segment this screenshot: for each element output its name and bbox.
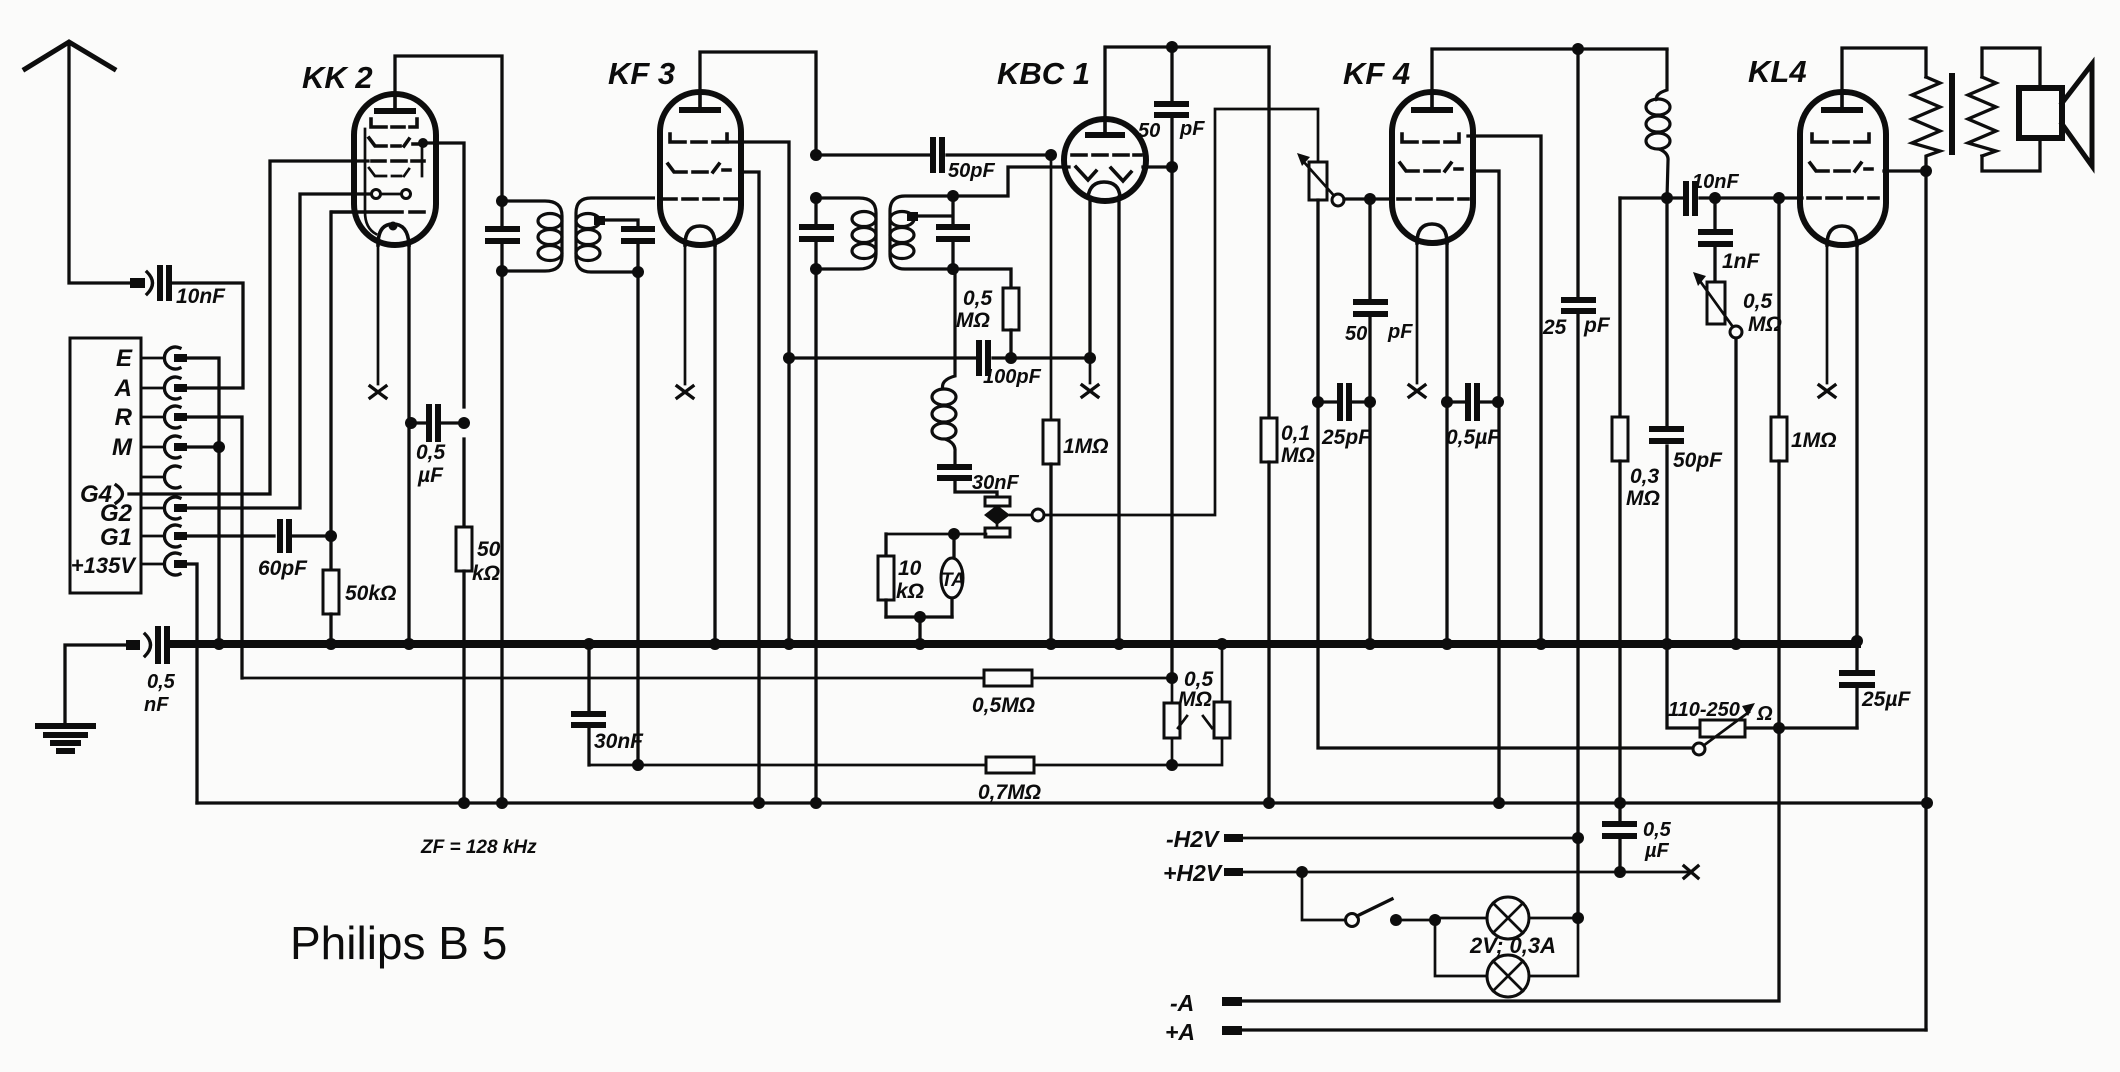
KF3 cathode (685, 226, 715, 245)
resistor 0,7MOhm (978, 757, 1041, 804)
svg-text:0,7MΩ: 0,7MΩ (978, 781, 1041, 804)
capacitor 50pF (KBC1) (1138, 47, 1205, 167)
svg-text:10nF: 10nF (1692, 171, 1739, 193)
svg-text:KBC 1: KBC 1 (997, 56, 1090, 91)
capacitor IF2 secondary (916, 190, 967, 275)
terminal +H2V (1163, 860, 1698, 886)
capacitor 50pF (KF3-KBC1) (816, 140, 1051, 182)
wire KK2 heater x (370, 245, 386, 398)
capacitor IF1 primary (488, 206, 517, 266)
potentiometer sensitivity (1297, 153, 1344, 206)
junction rail 50pF (1166, 41, 1178, 53)
wire KK2 g2 out (418, 138, 464, 407)
resistor 50kOhm (grid leak) (323, 212, 396, 644)
wire IF1 secondary to 30nF line (636, 272, 639, 765)
capacitor 10nF (antenna) (160, 268, 226, 308)
tube KL4 (1748, 54, 1886, 245)
svg-text:MΩ: MΩ (1626, 487, 1660, 510)
antenna (25, 42, 132, 283)
wire KBC1 grid 50pF junction (1045, 149, 1057, 161)
svg-text:TA: TA (941, 570, 965, 591)
wire KK2 plate to IF1 (395, 56, 502, 195)
capacitor 30nF (AVC) (574, 644, 644, 765)
svg-text:0,5: 0,5 (963, 287, 993, 310)
junction rail 25pF (1572, 43, 1584, 55)
svg-text:pF: pF (1387, 321, 1413, 343)
wire KF3 heater x (677, 245, 693, 398)
terminal E (116, 345, 187, 372)
svg-text:G2: G2 (100, 500, 133, 527)
junction AVC end (1166, 672, 1178, 684)
svg-text:0,5MΩ: 0,5MΩ (972, 694, 1035, 717)
KF4 cathode (1417, 224, 1447, 243)
wire secondary to speaker (1982, 48, 2040, 171)
wire primary to +A rail (1924, 171, 1927, 1030)
svg-text:0,5: 0,5 (147, 671, 176, 693)
svg-text:100pF: 100pF (983, 366, 1042, 388)
svg-text:0,5: 0,5 (416, 441, 446, 464)
svg-text:0,5: 0,5 (1643, 819, 1672, 841)
switch (1302, 872, 1441, 927)
KBC1 anode (1088, 119, 1122, 135)
wire IF2 primary to bottom rail (814, 274, 817, 803)
terminal G1 (100, 524, 187, 551)
terminal G2 (100, 497, 187, 527)
tube KF4 (1343, 56, 1473, 243)
resistor 0,5MOhm pair right (1178, 644, 1230, 738)
svg-text:0,5: 0,5 (1743, 290, 1773, 313)
KL4 grid rows (1808, 134, 1878, 198)
tube KF3 (608, 56, 741, 245)
capacitor 30nF (osc) (940, 467, 1019, 498)
svg-text:KF 3: KF 3 (608, 56, 675, 91)
resistor 0,3MOhm (1612, 198, 1660, 803)
svg-text:pF: pF (1583, 314, 1611, 337)
terminal -H2V (1166, 826, 1584, 852)
svg-text:KK 2: KK 2 (302, 60, 373, 95)
svg-text:Philips B 5: Philips B 5 (290, 917, 507, 969)
svg-text:25pF: 25pF (1321, 426, 1372, 449)
wire KF4 grid to bus (1368, 402, 1371, 644)
svg-text:50pF: 50pF (1673, 449, 1723, 472)
junction 30nF line (632, 759, 644, 771)
svg-text:50: 50 (1138, 120, 1160, 142)
bottom rail junctions (458, 797, 1933, 809)
capacitor IF2 primary (802, 203, 831, 264)
wire antenna cap to A terminal (173, 283, 243, 388)
wire KF4 heater x (1409, 243, 1425, 397)
lamp 2V 0,3A lower (1435, 918, 1578, 997)
capacitor IF1 secondary (603, 220, 652, 278)
wire -A to 1M line (1243, 728, 1779, 1001)
KF4 anode (1414, 92, 1450, 110)
IF transformer 2 primary (810, 149, 876, 275)
svg-text:0,1: 0,1 (1281, 422, 1310, 445)
svg-text:110-250: 110-250 (1668, 699, 1740, 721)
svg-text:R: R (115, 404, 133, 431)
junction TA (948, 528, 960, 540)
output transformer core (1949, 76, 1955, 152)
wire KBC1 cathode down (1082, 197, 1098, 397)
svg-text:0,5µF: 0,5µF (1446, 426, 1501, 449)
KL4 cathode (1827, 226, 1857, 245)
svg-text:1nF: 1nF (1722, 250, 1761, 273)
wire KF3 g3 out (741, 172, 759, 803)
capacitor 100pF (783, 343, 1088, 388)
wire KL4 cathode to bus end (1855, 245, 1858, 641)
terminal box (70, 338, 141, 593)
wire IF2 to KBC1 grid (953, 167, 1069, 196)
KBC1 cathode (1088, 182, 1120, 197)
wire KF4 g3 to bottom rail (1473, 171, 1499, 803)
svg-text:60pF: 60pF (258, 557, 308, 580)
oscillator coil (932, 269, 956, 465)
speaker (2019, 64, 2092, 166)
potentiometer volume slider (984, 497, 1044, 537)
svg-text:10: 10 (898, 557, 922, 580)
wire 10k TA to bus (886, 611, 952, 644)
svg-text:MΩ: MΩ (1178, 688, 1212, 711)
tube KK2 (302, 60, 436, 245)
svg-text:MΩ: MΩ (956, 309, 990, 332)
resistor 0,5MOhm pair left (1164, 678, 1180, 771)
wire G4 to KK2 (129, 161, 368, 494)
capacitor 0,5uF (heater) (1605, 803, 1672, 872)
wire pot bottom to rheostat wiper line (1318, 200, 1692, 748)
svg-text:µF: µF (1644, 840, 1670, 862)
svg-text:-A: -A (1170, 990, 1194, 1016)
wire G2 to KK2 (187, 194, 370, 508)
wire IF1 primary to bottom rail (500, 276, 503, 803)
svg-text:MΩ: MΩ (1748, 313, 1782, 336)
svg-text:50pF: 50pF (948, 160, 995, 182)
svg-text:KF 4: KF 4 (1343, 56, 1410, 91)
capacitor 60pF (258, 522, 308, 580)
junction 60pF/50k (325, 530, 337, 542)
terminal R (115, 404, 187, 431)
svg-text:M: M (112, 434, 133, 461)
wire KF3 plate to IF2 (700, 52, 816, 150)
wire E to bus (187, 358, 219, 644)
potentiometer tone 0,5MOhm (1693, 272, 1782, 644)
KF3 grid rows (662, 134, 737, 199)
wire ground to 0,5nF (65, 645, 128, 723)
KL4 anode (1824, 92, 1860, 110)
wire detector output (1044, 109, 1318, 515)
wire KL4 g2 out (1884, 165, 1932, 177)
svg-text:0,3: 0,3 (1630, 465, 1660, 488)
svg-text:+H2V: +H2V (1163, 860, 1223, 886)
lamp 2V 0,3A upper (1435, 897, 1584, 939)
bottom +135V rail (197, 801, 1927, 804)
plug chassis (126, 634, 151, 656)
chassis bus (171, 640, 1857, 648)
terminal G4 (80, 481, 123, 508)
svg-text:kΩ: kΩ (896, 580, 924, 603)
resistor 50kOhm (g2) (456, 439, 501, 803)
svg-text:KL4: KL4 (1748, 54, 1807, 89)
wire 30nF return line (589, 738, 1222, 765)
capacitor 0,5nF (144, 629, 176, 716)
wire choke to bus (1661, 192, 1673, 644)
KF3 anode (682, 92, 718, 110)
svg-text:25: 25 (1542, 316, 1567, 339)
svg-text:+135V: +135V (71, 553, 138, 578)
terminal +135V (71, 553, 187, 578)
svg-text:Ω: Ω (1756, 703, 1773, 725)
capacitor 50pF (KF4 grid) (1345, 199, 1413, 396)
resistor 1MOhm (KBC1) (1043, 155, 1109, 644)
tube KBC1 (997, 56, 1146, 201)
svg-text:-H2V: -H2V (1166, 826, 1220, 852)
KK2 g1 contacts (372, 190, 411, 199)
svg-text:MΩ: MΩ (1281, 444, 1315, 467)
capacitor 0,5uF (KK2) (405, 407, 470, 487)
svg-text:ZF = 128 kHz: ZF = 128 kHz (420, 837, 537, 858)
wire G1 to 60pF (187, 534, 274, 537)
IF transformer 1 secondary (576, 198, 655, 272)
svg-text:A: A (114, 375, 132, 402)
KK2 grid rows (332, 119, 424, 234)
svg-text:1MΩ: 1MΩ (1791, 429, 1837, 452)
capacitor 25pF (HT) (1542, 49, 1611, 838)
wire pot to TA line (886, 533, 986, 536)
IF transformer 1 primary (496, 195, 562, 277)
terminal -A (1170, 990, 1242, 1016)
svg-text:pF: pF (1179, 118, 1205, 140)
rheostat 110-250 Ohm (1668, 699, 1773, 755)
terminal blank (141, 466, 180, 488)
KK2 anode (377, 94, 413, 111)
capacitor 1nF (1701, 198, 1761, 282)
wire KBC1 diode out (1143, 161, 1178, 678)
capacitor 0,5uF (KF4) (1441, 386, 1504, 449)
wire KF4 cathode to bus (1445, 243, 1448, 644)
plug antenna (130, 272, 153, 294)
svg-text:G1: G1 (100, 524, 132, 551)
capacitor 25uF (1842, 644, 1911, 728)
KBC1 diodes (1076, 167, 1131, 181)
wire R to AVC line (187, 417, 242, 678)
IF transformer 2 secondary (890, 196, 953, 269)
svg-text:E: E (116, 345, 133, 372)
choke coil (1646, 49, 1670, 198)
output transformer secondary (1968, 77, 1996, 156)
junction bias loop (1773, 722, 1785, 734)
wire KBC1 diode2 to bus (1117, 197, 1120, 644)
svg-text:10nF: 10nF (176, 285, 226, 308)
resistor 0,5MOhm (AVC) (972, 670, 1035, 717)
resistor 0,1MOhm (1261, 47, 1315, 803)
wire M to E-line (187, 445, 219, 448)
wire 60pF to 50k line (293, 534, 331, 537)
wire pot to KF4 grid (1344, 193, 1392, 205)
svg-text:+A: +A (1165, 1019, 1195, 1045)
wire +135V down to bottom rail (187, 564, 197, 803)
bus junctions (213, 635, 1863, 650)
wire KF4 plate rail (1432, 49, 1667, 92)
terminal M (112, 434, 187, 461)
wire KL4 heater x (1819, 245, 1835, 397)
wire g2 junction to bus (787, 358, 790, 644)
svg-text:1MΩ: 1MΩ (1063, 435, 1109, 458)
svg-text:2V; 0,3A: 2V; 0,3A (1469, 933, 1556, 958)
resistor 0,5MOhm (diode load) (953, 269, 1019, 359)
ground (38, 726, 93, 751)
svg-text:50: 50 (477, 538, 501, 561)
junction M/E (213, 441, 225, 453)
svg-text:25µF: 25µF (1861, 688, 1911, 711)
svg-text:30nF: 30nF (594, 730, 644, 753)
KF4 grid rows (1398, 134, 1468, 199)
capacitor 10nF (KL4 grid) (1620, 171, 1802, 213)
TA jack (941, 534, 965, 617)
wire heater minus (1576, 838, 1579, 918)
output transformer primary (1912, 77, 1940, 171)
KBC1 grid row (1072, 153, 1141, 157)
resistor 10kOhm (878, 534, 924, 617)
svg-text:µF: µF (417, 464, 444, 487)
wire KBC1 plate rail (1105, 47, 1269, 119)
wire KK2 cathode to bus (407, 245, 410, 644)
capacitor 50pF (osc pad) (1652, 429, 1723, 472)
svg-text:50kΩ: 50kΩ (345, 582, 396, 605)
wire cathode bias loop (1667, 644, 1857, 728)
svg-text:50: 50 (1345, 323, 1367, 345)
terminal A (114, 375, 187, 402)
resistor 1MOhm (KL4) (1771, 198, 1837, 728)
KK2 cathode (378, 222, 409, 246)
wire KF3 g2 out (730, 142, 789, 352)
wire AVC line (242, 677, 1172, 680)
wire KL4 plate rail (1842, 48, 1926, 92)
wire KF4 g2 to bus (1468, 136, 1541, 644)
capacitor 25pF (1312, 386, 1376, 449)
wire KF3 cathode to bus (713, 245, 716, 644)
svg-text:nF: nF (144, 694, 169, 716)
terminal +A (1165, 1019, 1926, 1045)
svg-text:kΩ: kΩ (472, 562, 500, 585)
